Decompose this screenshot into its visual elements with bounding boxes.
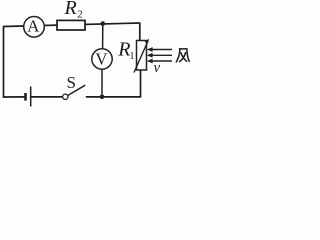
wire: bottom left to battery [3, 96, 26, 98]
wire: top-right vertical into R1 [139, 23, 141, 42]
battery cell: long thin plate [30, 87, 32, 107]
wire: voltmeter bottom lead [101, 69, 103, 97]
wire: left vertical side [3, 26, 5, 98]
ammeter A [24, 17, 45, 38]
wire: voltmeter top lead [102, 24, 104, 50]
wire: switch to bottom-right corner [86, 96, 141, 98]
wire: top horizontal from left corner to top-right corner [4, 23, 140, 27]
svg-text:1: 1 [130, 51, 135, 62]
wind arrow 2 [151, 54, 172, 56]
junction dot top [101, 21, 106, 26]
svg-text:v: v [154, 60, 161, 76]
wire: battery to switch [31, 96, 63, 98]
battery cell: short thick plate [24, 93, 27, 101]
svg-text:2: 2 [77, 9, 83, 21]
svg-text:R: R [64, 0, 77, 19]
wind arrow 3 [151, 60, 172, 62]
svg-text:A: A [27, 16, 40, 35]
svg-text:V: V [95, 50, 107, 69]
resistor R1 body (vertical) [137, 41, 147, 71]
voltmeter V [92, 49, 112, 69]
resistor R2 body [57, 20, 85, 30]
variable resistor arrow (diagonal through R1) [134, 42, 148, 73]
wind arrow 1 [151, 49, 172, 51]
svg-text:S: S [67, 73, 76, 92]
junction dot bottom (voltmeter branch) [100, 95, 105, 100]
switch S pivot circle [63, 94, 68, 99]
switch S blade [68, 85, 85, 95]
label 风 (wind) drawn as strokes [176, 49, 189, 62]
wire: R1 bottom lead [140, 70, 142, 98]
